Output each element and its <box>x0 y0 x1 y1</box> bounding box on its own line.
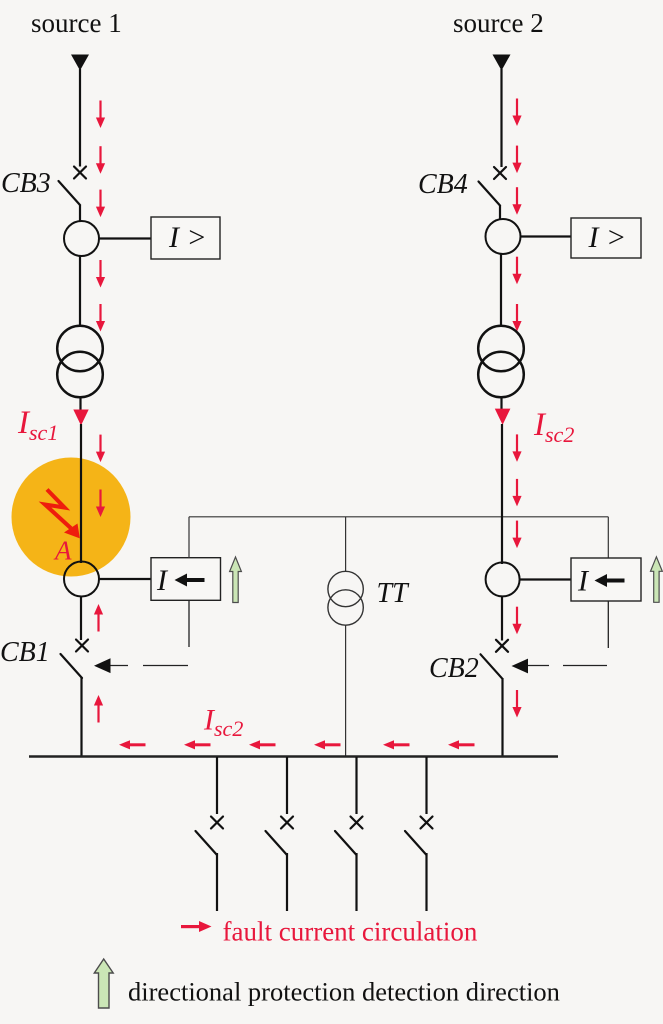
trip arrow to CB2 <box>512 659 529 674</box>
wire: T2 to Isc2 arrow <box>500 397 502 410</box>
wire: pilot link horizontal <box>189 516 608 518</box>
wire: relay trip drop (left) <box>188 601 190 648</box>
svg-text:CB1: CB1 <box>0 637 50 668</box>
current arrow Isc1 (red solid) <box>73 410 88 426</box>
svg-text:I >: I > <box>588 221 627 254</box>
flow arrows: source 1 feeder <box>96 101 105 518</box>
wire: Isc2 arrow to CT (right) <box>501 424 503 564</box>
wire: pilot drop to TT <box>345 517 347 572</box>
svg-text:A: A <box>53 536 72 566</box>
flow arrows: busbar (leftward) <box>119 740 475 749</box>
breaker CB1 <box>61 640 89 679</box>
breaker CB3 <box>59 167 87 206</box>
svg-text:TT: TT <box>377 578 411 609</box>
wire: CT to CB1 <box>80 597 82 641</box>
source 2 incomer arrow <box>493 55 511 71</box>
svg-text:CB2: CB2 <box>429 653 479 684</box>
wire: CT to transformer T1 <box>79 256 81 327</box>
svg-text:source 2: source 2 <box>453 8 544 38</box>
wire: CB3 to CT <box>79 205 81 223</box>
svg-text:source 1: source 1 <box>31 8 122 38</box>
relay box I> (left) <box>151 217 220 259</box>
wire: pilot link right box top <box>607 517 609 558</box>
wire: relay trip drop (right) <box>607 601 609 648</box>
transformer T1 (source 1) <box>57 326 103 398</box>
detection direction arrow (right, green) <box>651 557 663 603</box>
wire: CB2 to busbar <box>501 678 503 757</box>
wire: pilot link left box top <box>188 517 190 558</box>
transformer T2 (source 2) <box>478 326 524 398</box>
detection direction arrow (left, green) <box>230 557 242 603</box>
wire: CT tap to relay I< (left) <box>99 578 151 580</box>
breaker CB2 <box>481 640 509 679</box>
trip link dashes (left) <box>110 665 188 667</box>
voltage transformer TT <box>328 571 363 625</box>
svg-text:directional protection detecti: directional protection detection directi… <box>128 977 560 1007</box>
current arrow Isc2 (red solid) <box>495 409 511 425</box>
feeder 3 <box>335 757 363 911</box>
svg-text:fault current circulation: fault current circulation <box>223 917 478 947</box>
CT sensor circle (source 1) <box>64 221 99 256</box>
wire: CT to transformer T2 <box>500 254 502 327</box>
wire: CT tap to relay I< (right) <box>520 578 572 580</box>
svg-text:CB4: CB4 <box>418 169 468 200</box>
feeder 4 <box>405 757 433 911</box>
relay box I arrow (left directional) <box>151 558 221 601</box>
wire: CT tap to relay I> (left) <box>99 237 151 239</box>
feeder 2 <box>266 757 294 911</box>
wire: Isc1 arrow to CT (through fault) <box>80 424 82 563</box>
wire: CT to CB2 <box>501 596 503 640</box>
wire: source 1 drop <box>79 69 81 167</box>
fault zone highlight <box>12 458 131 577</box>
wire: T1 to Isc1 arrow <box>79 397 81 410</box>
wire: CT tap to relay I> (right) <box>521 235 572 237</box>
svg-text:CB3: CB3 <box>1 168 51 199</box>
trip link dashes (right) <box>527 665 607 667</box>
wire: source 2 drop <box>500 69 502 167</box>
CT sensor circle (source 2) <box>486 219 521 254</box>
wire: CB1 to busbar <box>80 677 82 757</box>
busbar <box>29 755 558 758</box>
wire: TT to busbar <box>345 625 347 757</box>
relay box I arrow (right directional) <box>571 558 641 601</box>
fault lightning bolt <box>45 490 80 539</box>
legend: fault current arrow <box>181 921 212 932</box>
trip arrow to CB1 <box>94 658 111 673</box>
CT sensor circle (CB1 directional) <box>64 562 99 597</box>
wire: CB4 to CT <box>499 205 501 220</box>
source 1 incomer arrow <box>71 55 89 71</box>
svg-text:I >: I > <box>168 221 207 254</box>
CT sensor circle (CB2 directional) <box>486 562 520 596</box>
relay box I> (right) <box>571 218 641 258</box>
feeder 1 <box>196 757 224 911</box>
breaker CB4 <box>479 167 507 206</box>
flow arrows: CB1 branch (up) <box>94 604 103 723</box>
flow arrows: source 2 feeder <box>512 99 521 718</box>
legend: green direction arrow <box>94 959 113 1008</box>
